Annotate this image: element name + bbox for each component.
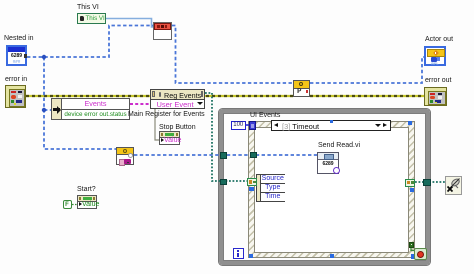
terminal Nested in (6, 45, 27, 66)
junction dot B (42, 108, 46, 112)
loop condition terminal (414, 248, 427, 260)
label Main Register for Events (128, 111, 205, 118)
user event wire unbundle to Reg Events (130, 103, 150, 105)
terminal Actor out (424, 46, 446, 66)
blue marker on selector (330, 120, 334, 124)
property node Start?.Value (77, 195, 97, 209)
AF VI icon 2 (293, 80, 310, 97)
label Send Read.vi (318, 142, 360, 149)
AF VI yellow icon 1 (116, 147, 134, 165)
label error out (425, 77, 451, 84)
event selector label (271, 120, 391, 131)
boolean wire tunnel to loop condition (411, 247, 415, 251)
Send Read.vi icon (317, 152, 339, 174)
label Stop Button (159, 124, 196, 131)
event reg refnum wire Reg Events to event structure (205, 93, 248, 181)
actor wire AF VI 2 to Actor out (310, 57, 424, 83)
event structure interior (254, 127, 410, 253)
blue tunnel below right dynamic terminal (410, 188, 415, 193)
loop tunnel left for event reg wire (220, 179, 227, 186)
event reg refnum wire to Unregister (415, 181, 445, 183)
event structure border (248, 121, 415, 258)
numeric constant 100 (231, 121, 246, 131)
blue tunnel event structure bottom left (249, 254, 253, 258)
loop tunnel right for event reg wire (423, 179, 431, 186)
unbundle by name node (51, 98, 130, 120)
timeout terminal (249, 121, 256, 130)
blue tunnel event structure bottom middle (330, 254, 334, 258)
event structure tunnel for enqueuer wire (250, 152, 257, 159)
red VI icon (153, 22, 172, 40)
while loop (219, 109, 430, 265)
property node Stop Button.Value (159, 131, 180, 145)
blue tunnel left of condition terminal (411, 254, 416, 259)
loop iteration terminal i (233, 248, 244, 259)
actor wire red VI to AF VI 2 (172, 26, 293, 84)
enqueuer wire to Send Read.vi (134, 154, 317, 156)
dynamic event terminal left (247, 178, 257, 186)
label Actor out (425, 36, 453, 43)
Unregister For Events icon (445, 176, 462, 195)
terminal error out (424, 87, 447, 106)
boolean constant F (63, 200, 72, 209)
actor wire branch down to unbundle and self-enqueuer VI (44, 57, 116, 149)
label error in (5, 76, 27, 83)
label Start? (77, 186, 96, 193)
actor wire Nested in to red VI (27, 26, 153, 58)
event data node (256, 174, 285, 202)
dynamic event terminal right (405, 179, 415, 188)
loop tunnel left for enqueuer wire (220, 152, 227, 159)
numeric wire 100 to timeout terminal (246, 124, 250, 126)
boolean tunnel on event structure border (409, 242, 415, 248)
label This VI (77, 4, 99, 11)
VI refnum wire This VI to red VI (106, 19, 153, 28)
refnum stub Reg Events to Stop Button property node (155, 108, 159, 140)
Reg Events node (150, 89, 205, 109)
blue tunnel below left dynamic terminal (249, 187, 254, 192)
junction dot A (42, 55, 46, 59)
This VI constant (77, 13, 106, 24)
label UI Events (250, 112, 280, 119)
boolean wire F constant to Start Value (72, 204, 78, 206)
terminal error in (5, 85, 26, 108)
label Nested in (4, 35, 34, 42)
error wire from error in to error out (26, 95, 424, 97)
blue tunnel event structure top right (408, 121, 412, 125)
actor wire into unbundle (44, 109, 52, 111)
